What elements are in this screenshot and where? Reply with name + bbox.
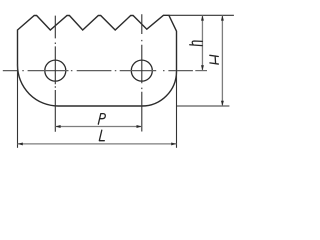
dimension line P	[55, 126, 142, 128]
hole right	[131, 60, 152, 81]
extension line right edge down to L	[176, 70, 178, 148]
horizontal centerline	[3, 70, 193, 72]
arrow L right	[171, 142, 176, 145]
label L	[99, 130, 104, 141]
dimension line L	[18, 143, 177, 145]
plate outline (serrated blade body)	[18, 15, 177, 106]
extension line top edge right to H	[169, 14, 234, 16]
label H	[210, 55, 219, 64]
vertical centerline left hole	[54, 16, 56, 132]
arrow H bottom	[221, 101, 224, 106]
hole left	[45, 60, 66, 81]
arrow L left	[18, 142, 23, 145]
dimension line h	[201, 15, 203, 70]
extension line left edge down to L	[17, 64, 19, 148]
arrow P right	[137, 125, 142, 128]
arrow H top	[221, 15, 224, 20]
extension line bottom edge right to H	[177, 105, 230, 107]
label P	[98, 114, 105, 125]
extension line centerline right for h	[195, 70, 207, 72]
dimension line H	[221, 15, 223, 106]
label h	[190, 41, 203, 46]
vertical centerline right hole	[141, 14, 143, 131]
arrow h bottom	[201, 65, 204, 70]
arrow h top	[201, 15, 204, 20]
arrow P left	[55, 125, 60, 128]
